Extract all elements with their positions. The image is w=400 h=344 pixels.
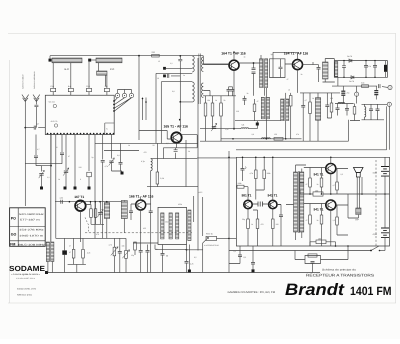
driver transformer T10 winding a: [294, 172, 298, 232]
wire mid vertical x193: [193, 196, 195, 222]
wire C12: [302, 93, 304, 141]
svg-text:941 T1: 941 T1: [314, 208, 324, 212]
svg-text:5k: 5k: [224, 99, 226, 102]
svg-text:HP: HP: [356, 219, 360, 222]
wire R46: [95, 202, 97, 225]
wire C7: [365, 61, 367, 78]
wire gang drop f: [35, 135, 37, 156]
svg-text:1k: 1k: [251, 223, 253, 226]
ferrite rod coil L2 P-O: [96, 58, 122, 63]
wire pot to amplifier: [217, 237, 230, 239]
resistor R43 5,6k: [362, 85, 369, 88]
svg-text:Schéma de principe du: Schéma de principe du: [322, 269, 357, 272]
svg-text:170: 170: [368, 65, 371, 68]
wire C17: [120, 143, 122, 171]
svg-text:6,8: 6,8: [172, 90, 175, 93]
transistor Q2 FM IF 164T1: [293, 60, 303, 70]
dashed gang link hook: [85, 217, 89, 231]
wire R10: [290, 93, 292, 139]
ground C27: [252, 269, 255, 272]
svg-text:FM: FM: [105, 85, 108, 88]
capacitor C46: [185, 262, 189, 264]
wire C15 down: [36, 135, 51, 166]
wire T4 upper: [323, 59, 335, 83]
capacitor C10: [231, 90, 235, 92]
wire L4 out: [249, 121, 258, 129]
resistor R44: [353, 107, 356, 115]
wire R6: [205, 96, 207, 141]
wire C44: [140, 243, 142, 273]
IF transformer T4 lower: [315, 98, 320, 121]
wire R20: [253, 210, 258, 246]
trimmer capacitor CV8: [109, 158, 115, 166]
svg-text:0,5: 0,5: [194, 256, 197, 259]
svg-text:6,8: 6,8: [117, 154, 120, 157]
svg-text:Antenne voiture: Antenne voiture: [22, 74, 25, 89]
capacitor C25 50: [161, 254, 165, 256]
svg-text:360: 360: [165, 221, 168, 224]
rail terminal square: [45, 271, 48, 274]
wire C18: [130, 204, 132, 220]
wire pot line into box: [229, 237, 236, 239]
IF transformer T4 upper: [323, 62, 329, 79]
wire R31: [125, 238, 127, 272]
svg-text:5p: 5p: [92, 156, 94, 159]
wires Q7 Q8: [304, 157, 348, 246]
svg-text:Référence 4-601: Référence 4-601: [17, 293, 33, 296]
resistor R14 5,1k: [156, 172, 159, 184]
variable capacitor CV5: [63, 168, 69, 176]
wire CV7 ground: [88, 177, 90, 187]
svg-text:0,1: 0,1: [234, 250, 237, 253]
wire gang drop d: [65, 135, 67, 171]
wire R9: [254, 99, 256, 121]
wire FM feed a: [166, 67, 192, 69]
tuning gang block outline: [45, 95, 114, 134]
svg-text:220: 220: [79, 166, 82, 169]
wire CV9: [91, 202, 104, 225]
wire secondary to Q1 base: [203, 57, 228, 96]
wire C9 C10: [229, 87, 233, 96]
svg-text:1,5: 1,5: [333, 219, 336, 222]
resistor R22: [309, 178, 312, 187]
svg-text:47: 47: [68, 155, 70, 158]
on-off switch: [371, 246, 379, 251]
wire L2 square link: [91, 59, 96, 61]
svg-text:4,7μ: 4,7μ: [141, 160, 145, 163]
capacitor C38: [336, 108, 340, 110]
IF transformer T8 winding a: [161, 213, 164, 239]
terminal strip dots under gang: [47, 133, 115, 135]
resistor R7: [211, 103, 214, 116]
wire mid horizontals: [95, 140, 236, 187]
diode D1 OA79 top: [349, 59, 352, 62]
capacitor C23: [300, 183, 304, 185]
ground IF strip: [256, 123, 259, 126]
trimmer capacitor CV4: [211, 123, 217, 131]
resistor R33 loop: [308, 254, 317, 257]
wire gang drop h: [94, 135, 96, 239]
resistor R18 220k base: [237, 185, 244, 188]
dashed tuning link: [85, 232, 192, 234]
svg-text:AVC PO: AVC PO: [51, 120, 58, 123]
wire R7: [212, 96, 214, 129]
wires Q5 Q6: [248, 157, 273, 219]
wire FM feed b: [171, 68, 192, 102]
capacitor C5 detector: [342, 66, 346, 68]
ferrite rod coil L1 B-O: [52, 58, 82, 63]
wire switch to battery: [380, 250, 386, 252]
svg-text:10: 10: [288, 89, 290, 92]
svg-text:2k: 2k: [188, 150, 190, 153]
resistor R29 4,7k: [82, 249, 85, 258]
wire C46 down: [186, 263, 188, 273]
node AVC: [50, 165, 52, 167]
svg-text:100k: 100k: [267, 172, 271, 175]
svg-text:50: 50: [156, 248, 158, 251]
wire C26: [229, 246, 240, 264]
svg-text:3,3: 3,3: [252, 133, 255, 136]
svg-text:« la source agréée du service: « la source agréée du service »: [11, 273, 41, 276]
wire C19: [150, 213, 152, 273]
FM tuner joint dots: [142, 98, 147, 103]
svg-text:4,7k: 4,7k: [87, 251, 90, 254]
node x229: [228, 157, 230, 240]
svg-text:47: 47: [287, 78, 289, 81]
resistor R23: [320, 178, 323, 187]
resistor R28 47: [72, 249, 75, 258]
trimmer capacitor CV7: [87, 172, 92, 177]
wire C14 down: [61, 155, 63, 164]
svg-text:4,5k: 4,5k: [60, 197, 63, 200]
transistor Q6 AF driver: [269, 200, 277, 208]
capacitor C12: [301, 106, 305, 108]
wire x229 vertical: [228, 151, 230, 273]
oscillator transformer winding a: [104, 203, 109, 219]
capacitor C3: [178, 59, 182, 61]
resistor R1 220 on top rail: [152, 54, 160, 57]
wire T6: [285, 93, 287, 139]
wire gang drop b: [55, 135, 57, 239]
trimmer capacitor CT2 B-A: [68, 88, 73, 91]
capacitor C22: [279, 215, 283, 217]
wire R27: [337, 205, 348, 235]
wire R29: [82, 238, 84, 264]
wire C25: [162, 245, 164, 273]
wire R23: [321, 168, 323, 195]
wire R15: [134, 242, 136, 255]
transistor Q9 AM oscillator 167T1: [75, 200, 86, 211]
wire C16 down: [102, 162, 104, 238]
oscillator transformer winding b: [121, 201, 127, 219]
capacitor C30 stack: [252, 68, 256, 70]
resistor R16 4,7k: [255, 170, 258, 179]
gang inner AM OSC mark: [53, 104, 56, 107]
electrolytic C37: [374, 91, 378, 95]
svg-text:981 T1: 981 T1: [242, 194, 252, 198]
svg-text:1401 FM: 1401 FM: [350, 284, 392, 298]
node detector nodes: [343, 60, 375, 78]
resistor R25: [320, 215, 323, 224]
wire R11: [309, 93, 311, 141]
wires Q2: [273, 52, 313, 93]
svg-text:PO: PO: [11, 216, 16, 220]
svg-text:455k: 455k: [178, 203, 182, 206]
node AM IF line: [232, 138, 286, 140]
capacitor C27: [251, 263, 255, 265]
ratio transformer winding: [335, 62, 338, 77]
volume potentiometer box: [206, 236, 217, 240]
FM aerial coil secondary lower: [202, 83, 204, 97]
capacitor C24: [118, 252, 122, 254]
svg-text:GO: GO: [11, 232, 17, 236]
resistor R13 on line: [274, 138, 283, 141]
svg-text:A INTERRUPTEUR: A INTERRUPTEUR: [204, 244, 220, 247]
capacitor C44: [139, 251, 143, 253]
wire R32: [310, 242, 336, 246]
capacitor C11: [243, 99, 247, 101]
gang inner sub-box: [105, 123, 114, 135]
wires Q3: [139, 102, 197, 148]
resistor R20: [256, 219, 259, 229]
svg-text:10: 10: [157, 77, 159, 80]
svg-text:15: 15: [158, 60, 160, 63]
variable capacitor CV6: [39, 170, 45, 178]
svg-text:25μ: 25μ: [131, 254, 134, 257]
resistor R31: [125, 250, 128, 258]
svg-text:4,5V: 4,5V: [373, 172, 378, 175]
svg-text:4,7k: 4,7k: [250, 172, 253, 175]
wire CV6: [36, 166, 42, 187]
wire bottom supply rail: [46, 272, 320, 274]
wire C45: [147, 245, 149, 273]
loudspeaker HP: [354, 168, 364, 178]
terminal circle 2: [355, 92, 359, 96]
resistor R19 Q5 emitter: [247, 219, 250, 229]
svg-text:47: 47: [257, 100, 259, 103]
svg-text:167 T1: 167 T1: [74, 195, 84, 199]
svg-text:2,2: 2,2: [47, 176, 50, 179]
resistor R42: [330, 103, 333, 112]
svg-text:4,7k: 4,7k: [190, 263, 193, 266]
resistor R26: [336, 182, 339, 190]
resistor R17 100k: [263, 170, 266, 179]
wire AM osc line: [55, 201, 122, 203]
wire R21: [272, 229, 274, 247]
svg-text:220: 220: [330, 97, 333, 100]
ground CV6: [40, 187, 43, 190]
svg-text:100: 100: [318, 237, 321, 240]
svg-text:1k: 1k: [128, 144, 130, 147]
oscillator coil L7 winding b: [51, 242, 54, 262]
resistor R15: [134, 242, 137, 250]
svg-text:0,1: 0,1: [244, 256, 247, 259]
svg-text:47: 47: [69, 251, 71, 254]
choke L5: [262, 138, 271, 139]
wire A2 down: [35, 107, 37, 128]
antenna A1 mast: [22, 95, 29, 128]
svg-text:1k: 1k: [301, 73, 303, 76]
resistor R24: [309, 215, 312, 224]
node top rail FM drop: [138, 55, 140, 57]
wire R45: [90, 205, 92, 225]
node top rail coil tap: [179, 55, 181, 57]
wire CV8 down: [112, 163, 123, 171]
frequency table frame: [10, 208, 46, 247]
svg-text:4,7: 4,7: [37, 123, 40, 126]
svg-text:470: 470: [261, 223, 264, 226]
wire trimmer legs lower: [53, 92, 107, 96]
wire R42: [327, 93, 331, 118]
resistor R6: [204, 103, 207, 116]
coupling capacitor C21: [258, 202, 262, 207]
wire to terminal 3: [384, 104, 389, 150]
node Q1 top stub: [233, 51, 235, 53]
svg-text:1k: 1k: [317, 219, 319, 222]
node Q3 feed: [179, 119, 181, 121]
capacitor C4: [167, 74, 169, 78]
trimmer capacitor CT4 FM: [104, 88, 109, 91]
wires Q4: [131, 197, 158, 244]
wire R8: [220, 96, 222, 141]
capacitor C35 AF line: [379, 84, 381, 88]
battery B1 4,5V: [381, 167, 389, 177]
wire AF return line: [236, 106, 387, 149]
wire AF output line: [332, 77, 377, 86]
FM trimmer discs: [115, 93, 133, 97]
svg-text:577-187 m: 577-187 m: [20, 219, 40, 222]
antenna A2 mast: [33, 95, 40, 105]
wire R16: [255, 157, 257, 199]
wire C33: [313, 62, 319, 82]
wires T10: [277, 165, 306, 240]
wire padder: [64, 238, 66, 272]
svg-text:P-O: P-O: [51, 85, 55, 88]
svg-text:5,6: 5,6: [242, 124, 245, 127]
svg-text:154-276 KHz: 154-276 KHz: [19, 229, 45, 232]
svg-text:4,7: 4,7: [166, 142, 169, 145]
transistor Q7 output upper 941T1: [326, 164, 336, 174]
wire L2b: [99, 63, 106, 87]
wire gang drop j: [111, 135, 113, 159]
dashed battery compartment: [375, 160, 377, 246]
wire T5: [265, 88, 267, 97]
wire B2: [384, 194, 386, 251]
svg-text:455: 455: [143, 227, 146, 230]
wire C39: [346, 104, 348, 116]
svg-text:5,6k: 5,6k: [361, 81, 364, 84]
svg-text:86,5-108 MHz: 86,5-108 MHz: [18, 243, 46, 246]
terminal square L1: [49, 59, 52, 62]
resistor R8: [220, 103, 223, 116]
capacitor C2 antenna coupling 4,7: [34, 126, 36, 130]
ratio detector box outline: [334, 61, 387, 78]
wire CV5 ground: [65, 173, 67, 187]
svg-text:47: 47: [69, 245, 71, 248]
wire C34: [326, 93, 328, 118]
wire IF bias bus: [203, 93, 340, 121]
wire osc top link: [56, 237, 126, 239]
resistor R21 Q6 emitter: [272, 219, 275, 229]
wire top rail: [50, 56, 203, 59]
wire L6 down: [150, 171, 152, 211]
wire gang drop i: [102, 135, 104, 160]
svg-text:470: 470: [96, 233, 99, 236]
wire osc transformer b: [123, 201, 125, 233]
node detector return: [186, 249, 188, 251]
svg-text:SODAME: SODAME: [9, 264, 45, 273]
svg-text:1k: 1k: [244, 56, 246, 59]
driver transformer T10 winding b: [300, 172, 304, 232]
wire R28: [73, 238, 75, 264]
wire C38: [337, 104, 339, 116]
svg-text:47: 47: [306, 183, 308, 186]
capacitor C15: [34, 156, 38, 158]
capacitor C45: [146, 251, 150, 253]
IF transformer T8 winding c: [176, 213, 179, 239]
choke L4 5,6: [241, 127, 249, 130]
wire C27: [252, 246, 254, 269]
wire C42: [175, 148, 177, 159]
electrolytic capacitor C9: [384, 65, 387, 72]
svg-text:2,2: 2,2: [170, 62, 173, 65]
svg-text:1k: 1k: [247, 92, 249, 95]
padder block: [62, 250, 67, 254]
FM aerial coil core: [199, 54, 201, 105]
transistor Q5 AF preamp: [244, 200, 252, 208]
svg-text:+OC GO: +OC GO: [48, 101, 56, 104]
ground T9: [188, 270, 191, 273]
wire terminal 2: [356, 86, 358, 103]
svg-text:Antenne extérieure: Antenne extérieure: [33, 71, 36, 89]
capacitor C9: [227, 90, 231, 92]
terminal square FM feed b: [163, 75, 166, 78]
gang FM terminal dots: [113, 100, 115, 112]
svg-text:4,7: 4,7: [305, 99, 308, 102]
R30 slider arrow: [111, 247, 118, 256]
ground drop e: [74, 187, 77, 190]
wire L7 bottoms: [48, 135, 52, 273]
capacitor C33: [317, 68, 321, 70]
IF transformer T6: [281, 99, 289, 122]
IF transformer T8 winding b: [169, 213, 172, 239]
wire mid vertical x198: [197, 58, 199, 251]
wire C37: [375, 86, 377, 99]
wire CV4 on AGC line: [200, 128, 241, 130]
svg-text:50μ: 50μ: [242, 218, 245, 221]
svg-text:47: 47: [306, 219, 308, 222]
capacitor C14: [60, 153, 64, 155]
feedback loop: [305, 246, 348, 264]
svg-text:FM: FM: [10, 242, 15, 246]
cluster capacitor C40: [369, 109, 373, 111]
capacitor C28 loop: [311, 262, 315, 264]
node FM feed: [179, 101, 181, 103]
FM aerial coil primary lower: [192, 82, 194, 102]
svg-text:Edition AVRIL 1970: Edition AVRIL 1970: [17, 288, 37, 291]
capacitor C17: [119, 163, 123, 165]
IF transformer T5: [261, 97, 269, 120]
svg-text:520-1600 KHz: 520-1600 KHz: [19, 213, 45, 216]
svg-text:P-O: P-O: [110, 68, 114, 71]
wires Q1: [203, 52, 234, 128]
node Q1 emitter on AGC line: [233, 128, 235, 130]
capacitor C42 emitter: [174, 150, 178, 152]
wire AM IF line: [221, 138, 302, 140]
svg-text:1k: 1k: [317, 183, 319, 186]
node C30: [253, 62, 255, 64]
resistor R11: [309, 102, 312, 114]
